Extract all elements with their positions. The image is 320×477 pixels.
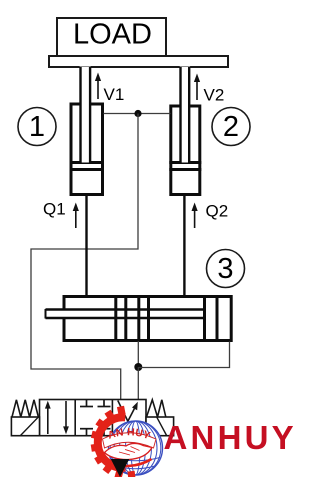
U3 piston C [205, 296, 218, 341]
valve position 2 blocked ports [80, 400, 111, 436]
port line Q1 [85, 194, 87, 296]
logo globe [109, 421, 163, 475]
load box [57, 18, 166, 56]
tank line [120, 436, 122, 461]
balloon 3 [207, 250, 245, 288]
synchronizing cylinder U3 body [64, 297, 231, 341]
port line Q2 [183, 194, 185, 296]
valve position 1 down arrow [63, 401, 69, 434]
U3 piston B [139, 296, 149, 341]
cylinder C2 body [171, 106, 200, 195]
svg-text:Q2: Q2 [206, 202, 229, 221]
U3 piston A [116, 296, 126, 341]
U3 rod [46, 309, 205, 319]
arrow Q2 [192, 203, 198, 229]
cylinder C1 rod [80, 67, 91, 163]
svg-text:ANHUY: ANHUY [164, 419, 296, 456]
svg-text:1: 1 [29, 111, 45, 143]
valve left spring [12, 400, 38, 417]
svg-text:V2: V2 [204, 86, 225, 105]
junction dot A [134, 110, 141, 117]
logo gear [91, 406, 136, 477]
svg-text:3: 3 [217, 253, 233, 285]
logo banner [103, 427, 157, 448]
arrow Q1 [73, 203, 79, 229]
logo bottom ribbon [107, 459, 152, 466]
cylinder C2 piston [169, 163, 201, 170]
valve position 1 up arrow [45, 401, 51, 434]
cylinder C1 piston [70, 163, 105, 170]
svg-text:2: 2 [223, 111, 239, 143]
wire U3 right port [138, 342, 229, 368]
svg-text:Q1: Q1 [43, 200, 66, 219]
valve position 3 crossed arrows [118, 401, 138, 435]
directional valve body [40, 400, 147, 436]
platform bar [49, 56, 228, 67]
balloon 2 [212, 108, 250, 146]
wire U3 bottom port [137, 341, 139, 364]
logo handshake [105, 443, 153, 459]
svg-text:LOAD: LOAD [73, 19, 152, 51]
tank arrow head [111, 459, 130, 477]
wire junction B to valve [137, 367, 139, 400]
wire rod-side link [104, 113, 171, 115]
valve right pilot box [146, 417, 174, 436]
balloon 1 [18, 108, 56, 146]
arrow V2 [194, 74, 200, 101]
cylinder C1 body [71, 104, 103, 195]
valve left pilot box [11, 417, 39, 436]
wire junction A to valve [31, 114, 138, 400]
svg-text:V1: V1 [104, 85, 125, 104]
arrow V1 [95, 73, 101, 100]
valve right spring [147, 400, 166, 417]
cylinder C2 rod [180, 67, 190, 163]
junction dot B [134, 363, 142, 371]
